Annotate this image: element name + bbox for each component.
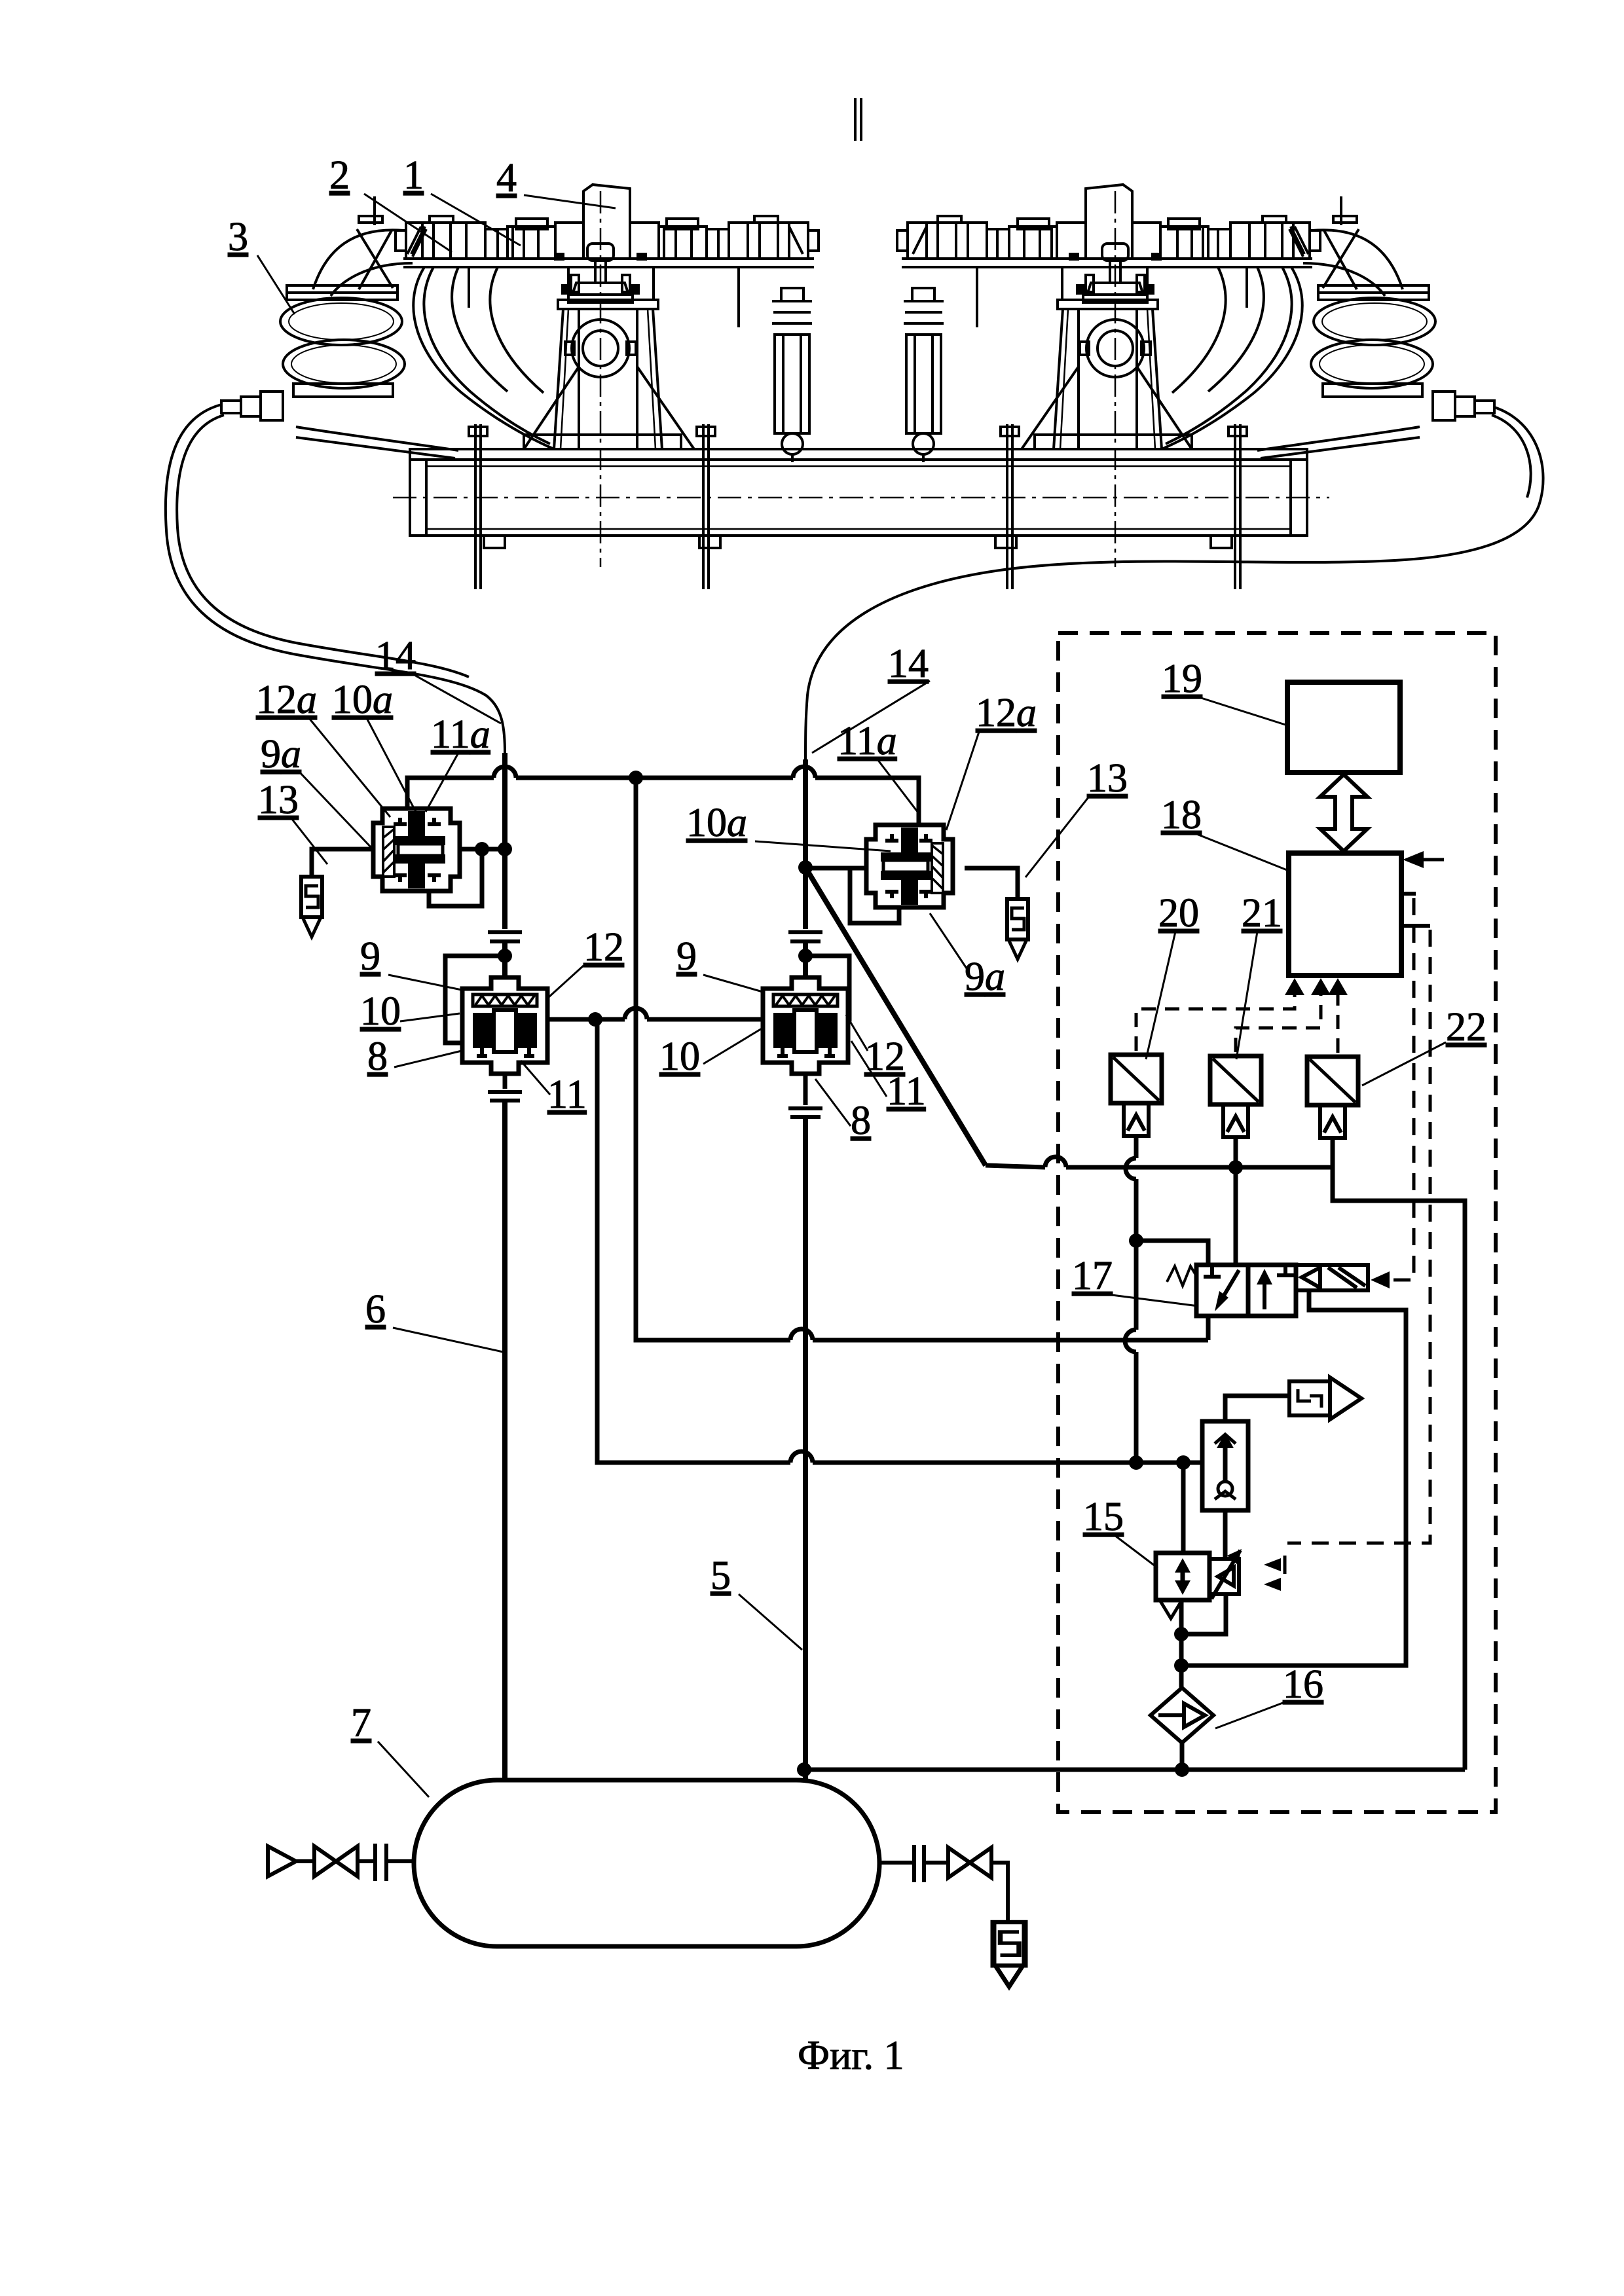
pipe: branch to valve 17 pilot top: [1136, 1241, 1208, 1265]
pipe line 6: left lower valve to reservoir: [503, 1074, 507, 1089]
filter 16: [1151, 1688, 1213, 1743]
valve 17 spring: [1167, 1266, 1196, 1286]
box 18 (electronic control unit): [1289, 853, 1401, 975]
hose to line 14 left: [166, 405, 505, 753]
pipe line 14 left (from air spring): [502, 753, 507, 929]
pipe: right valve left port to line 14: [805, 866, 865, 871]
svg-text:20: 20: [1158, 891, 1199, 936]
pressure sensor 21: [1210, 1056, 1261, 1137]
svg-text:8: 8: [851, 1099, 871, 1143]
node dot valve17 pilot: [1129, 1233, 1143, 1248]
svg-text:3: 3: [228, 215, 248, 259]
svg-text:16: 16: [1283, 1662, 1323, 1707]
pipe: loop right lower valve: [805, 956, 849, 1019]
muffler 13 left: [301, 877, 322, 937]
svg-text:10: 10: [360, 989, 401, 1034]
dashed feedback: sensor 22 to box 18: [1337, 982, 1340, 1053]
pipe: left valve to muffler 13: [312, 849, 373, 877]
throttle above valve 9 left: [488, 932, 522, 941]
right shut-off valve: [948, 1848, 991, 1878]
svg-text:9a: 9a: [261, 732, 301, 776]
beam: [410, 449, 1307, 460]
svg-text:11a: 11a: [838, 719, 897, 763]
valve 17: 3/2 pilot valve: [1196, 1265, 1296, 1316]
svg-text:10a: 10a: [332, 678, 393, 722]
pipe: right valve bottom loop: [850, 868, 899, 923]
muffler at check unit (horizontal): [1289, 1377, 1361, 1419]
pressure sensor 20: [1111, 1055, 1162, 1136]
pipe: top header between valves 11a with hops over lines 14: [407, 767, 919, 826]
svg-text:10: 10: [659, 1034, 700, 1079]
svg-text:22: 22: [1446, 1005, 1486, 1049]
dashed control line to solenoid of valve 17: [1390, 898, 1414, 1280]
svg-text:8: 8: [367, 1034, 388, 1079]
pilot override arrows: [1264, 1558, 1281, 1571]
pressure regulator 15: [1156, 1553, 1209, 1600]
dashed control-unit box: [1058, 633, 1496, 1812]
svg-text:4: 4: [496, 156, 517, 200]
valve 17 supply line from bottom: [1206, 1316, 1211, 1340]
svg-text:19: 19: [1162, 657, 1202, 701]
hose to line 14 right: [805, 407, 1543, 759]
pipe: crossover line between lower valves with hop over riser: [545, 1008, 763, 1019]
pipe: right valve to muffler 13: [965, 868, 1018, 899]
valve 17 left square internals: [1204, 1265, 1239, 1305]
svg-text:7: 7: [351, 1701, 371, 1745]
svg-text:13: 13: [1087, 756, 1128, 801]
svg-text:10a: 10a: [686, 801, 747, 845]
valve 17 solenoid box: [1296, 1265, 1368, 1290]
node dot top header: [629, 771, 643, 785]
reservoir left drain: plug triangle: [268, 1846, 314, 1876]
valve 17 exhaust/return from solenoid down and across: [1181, 1290, 1406, 1666]
svg-text:1: 1: [403, 153, 424, 198]
right half assembly (mirrored): [897, 185, 1494, 589]
pipe: diagonal from right valve node to manifold: [805, 867, 986, 1165]
pipe: loop left lower valve: [445, 956, 505, 1043]
svg-text:6: 6: [365, 1287, 386, 1332]
leader lines: [257, 194, 1446, 1797]
svg-text:17: 17: [1072, 1254, 1113, 1298]
svg-text:Фиг. 1: Фиг. 1: [798, 2033, 904, 2078]
svg-text:13: 13: [258, 778, 299, 822]
pipe line 5: right lower valve to reservoir: [803, 1074, 808, 1105]
pipe: bottom return line: [804, 1768, 1465, 1772]
valve 9 right lower: [763, 977, 848, 1074]
regulator exhaust triangle: [1160, 1600, 1182, 1618]
pipe: left valve right port: [460, 847, 505, 852]
dashed control line to pilot of regulator 15: [1287, 930, 1430, 1543]
svg-text:12: 12: [583, 925, 624, 970]
right flange: [879, 1845, 948, 1882]
arrow input into box 18 right top: [1403, 851, 1444, 868]
regulator pilot block: [1209, 1550, 1240, 1599]
beam feet: [484, 536, 1232, 548]
pipe: supply horizontal from central riser to valve 17 (hops over line 5 and sensor line): [636, 778, 1208, 1340]
left half assembly: [221, 185, 819, 589]
pipe filter to bottom line: [1180, 1743, 1185, 1770]
pipe regulator top: [1181, 1463, 1186, 1553]
pipe: left valve bottom loop: [429, 849, 482, 906]
check valve / throttle unit: [1202, 1421, 1248, 1510]
valve 9 left lower: [462, 977, 547, 1074]
svg-text:18: 18: [1161, 793, 1202, 837]
valve 9a right (levelling valve mirrored): [866, 825, 953, 907]
left flange: [357, 1844, 414, 1881]
svg-text:11: 11: [547, 1072, 587, 1117]
box 18 right port stubs: [1401, 894, 1430, 926]
svg-text:11: 11: [887, 1069, 926, 1114]
pipe from check unit up to muffler: [1225, 1396, 1289, 1421]
muffler 13 right: [1007, 899, 1028, 959]
reference labels: [228, 153, 1486, 2078]
pipe: branch from crossover down and right to check valve (hop over line 5): [595, 1019, 1202, 1463]
svg-text:2: 2: [329, 153, 350, 198]
left shut-off valve: [314, 1846, 358, 1876]
drain muffler right: [993, 1922, 1025, 1986]
dashed feedback: sensor 20 to box 18: [1136, 982, 1295, 1051]
svg-text:12a: 12a: [976, 691, 1037, 735]
svg-text:15: 15: [1083, 1495, 1124, 1539]
pipe: sensor 22 drop / right feed down to bottom line: [1333, 1138, 1465, 1770]
pipe check unit bottom to pilot block: [1223, 1510, 1228, 1559]
bidirectional arrow 19-18: [1320, 774, 1367, 851]
pressure sensor 22: [1307, 1057, 1358, 1138]
svg-text:12a: 12a: [256, 678, 317, 722]
valve 9a-13 left (levelling valve): [373, 809, 460, 891]
pipe regulator bottom drop to filter: [1179, 1600, 1184, 1688]
svg-text:14: 14: [888, 642, 929, 686]
svg-text:9: 9: [360, 934, 380, 979]
pipe line 14 right segment above valve: [803, 759, 808, 929]
reservoir 7: [414, 1780, 879, 1946]
svg-text:9a: 9a: [965, 955, 1005, 999]
pipe: manifold horizontal to sensor 22 drop: [986, 1157, 1333, 1167]
arrowhead at solenoid 17: [1371, 1271, 1390, 1288]
svg-text:5: 5: [710, 1554, 731, 1598]
dashed feedback: sensor 21 to box 18: [1236, 982, 1321, 1052]
svg-text:11a: 11a: [431, 712, 490, 757]
pipe: sensor 20 drop line with hop over manifold, to node and check line: [1125, 1136, 1136, 1463]
pipe: sensor 21 / manifold drop into valve 17 top: [1234, 1136, 1238, 1265]
pipe to right drain muffler: [991, 1863, 1008, 1922]
valve 17 right square internals (arrow up + seat): [1264, 1265, 1294, 1309]
svg-text:9: 9: [676, 934, 697, 979]
pipe pilot block bottom to main drop: [1181, 1594, 1226, 1634]
box 19 (on-board computer): [1287, 682, 1400, 773]
node dot manifold-sensor21: [1228, 1160, 1243, 1175]
svg-text:21: 21: [1242, 891, 1282, 936]
